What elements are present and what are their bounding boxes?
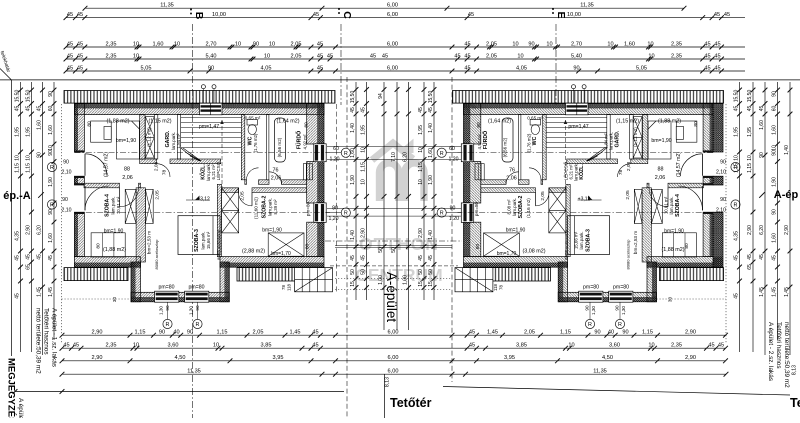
svg-text:10,00: 10,00 [212, 12, 226, 18]
right chain 1 [733, 82, 742, 352]
bottom wall left part [74, 257, 140, 263]
closet room4 [91, 233, 125, 257]
svg-text:10: 10 [213, 343, 219, 349]
gap dashed line right [451, 77, 453, 382]
svg-text:90: 90 [187, 330, 193, 336]
svg-text:A-ép: A-ép [774, 189, 799, 201]
svg-text:1,15: 1,15 [217, 330, 228, 336]
svg-text:A épület - 2.sz. lakás: A épület - 2.sz. lakás [767, 322, 774, 381]
svg-text:SZOBA-3: SZOBA-3 [194, 229, 200, 252]
svg-text:4,35: 4,35 [14, 231, 20, 241]
svg-text:10: 10 [174, 41, 180, 47]
svg-text:90: 90 [573, 65, 579, 71]
svg-text:50: 50 [360, 269, 366, 275]
svg-text:1,60: 1,60 [759, 120, 765, 130]
svg-text:45: 45 [747, 254, 753, 260]
svg-text:45: 45 [313, 12, 319, 18]
svg-text:R: R [196, 322, 200, 328]
svg-text:lam.park.: lam.park. [574, 163, 579, 181]
svg-text:45: 45 [360, 255, 366, 261]
svg-text:80: 80 [476, 122, 482, 128]
door to room 4 [74, 183, 84, 185]
svg-text:11,35: 11,35 [160, 3, 174, 9]
svg-text:45: 45 [468, 12, 474, 18]
svg-text:2,35: 2,35 [106, 53, 117, 59]
svg-text:1,20: 1,20 [449, 216, 459, 222]
svg-text:45: 45 [718, 343, 724, 349]
svg-text:1,95: 1,95 [747, 127, 753, 137]
svg-text:80/80 acéloszlop: 80/80 acéloszlop [564, 229, 569, 260]
svg-text:2,90: 2,90 [360, 228, 366, 238]
partition shaft [154, 114, 158, 159]
svg-text:2,90: 2,90 [747, 225, 753, 235]
svg-text:(1,88 m2): (1,88 m2) [658, 118, 681, 124]
svg-text:6,00: 6,00 [387, 12, 398, 18]
svg-text:4,05: 4,05 [261, 65, 272, 71]
svg-text:SZOBA-2: SZOBA-2 [518, 196, 524, 219]
svg-text:4,50: 4,50 [175, 355, 186, 361]
svg-text:1,15: 1,15 [135, 330, 146, 336]
svg-text:2,05: 2,05 [625, 190, 631, 200]
left chain 2 [25, 82, 34, 352]
svg-text:bm=1,90: bm=1,90 [651, 138, 671, 144]
svg-text:1,90: 1,90 [48, 177, 54, 187]
svg-text:15,66 m²: 15,66 m² [574, 231, 579, 249]
roof window top (60x60) [200, 103, 223, 115]
svg-text:R: R [50, 165, 54, 171]
left exterior wall [74, 104, 78, 152]
svg-text:WC: WC [532, 136, 538, 145]
svg-text:118: 118 [287, 283, 292, 291]
svg-text:A épület - 1.sz. lakás: A épület - 1.sz. lakás [51, 308, 58, 367]
vent circles [201, 85, 205, 89]
svg-text:45: 45 [382, 53, 388, 59]
svg-text:45: 45 [418, 107, 424, 113]
svg-text:1,15: 1,15 [747, 163, 753, 173]
svg-text:1,40: 1,40 [350, 230, 356, 240]
svg-text:1,15: 1,15 [642, 330, 653, 336]
closet room2 X [222, 188, 239, 233]
svg-text:1,30: 1,30 [189, 306, 194, 315]
svg-text:45: 45 [469, 330, 475, 336]
mid chain 6 [418, 82, 427, 300]
R markers bay windows right unit [589, 303, 591, 320]
top exterior wall [74, 104, 200, 109]
svg-text:1,40: 1,40 [428, 230, 434, 240]
svg-text:1,60: 1,60 [771, 233, 777, 243]
svg-text:80: 80 [86, 121, 92, 127]
svg-text:10: 10 [360, 147, 366, 153]
svg-text:50: 50 [378, 247, 384, 253]
svg-text:90: 90 [720, 197, 726, 203]
svg-text:1,90: 1,90 [350, 175, 356, 185]
eave strip bottom-left [64, 268, 128, 281]
svg-text:R: R [734, 203, 738, 209]
svg-text:1,45: 1,45 [48, 287, 54, 297]
svg-text:pm=80: pm=80 [306, 201, 311, 216]
svg-text:2,10: 2,10 [61, 208, 71, 214]
mid chain 1 [350, 82, 359, 300]
svg-text:2,35: 2,35 [671, 41, 682, 47]
svg-text:2,90: 2,90 [25, 225, 31, 235]
dimension row bottom 1 [60, 330, 728, 338]
svg-text:1,60: 1,60 [350, 148, 356, 158]
svg-text:1,90: 1,90 [771, 177, 777, 187]
svg-text:bm=1,70: bm=1,70 [497, 251, 517, 257]
svg-text:A épület 1.sz: A épület 1.sz [17, 398, 24, 418]
svg-text:45: 45 [14, 293, 20, 299]
svg-text:11,35: 11,35 [187, 369, 201, 375]
svg-text:10: 10 [235, 41, 241, 47]
svg-text:1,45: 1,45 [36, 287, 42, 297]
svg-text:3,85: 3,85 [261, 343, 272, 349]
svg-text:2,90: 2,90 [92, 355, 103, 361]
svg-text:2,05: 2,05 [486, 53, 497, 59]
svg-text:45: 45 [704, 41, 710, 47]
svg-text:45: 45 [63, 343, 69, 349]
svg-text:1,45: 1,45 [771, 287, 777, 297]
svg-text:nettó területe:50,39 m2: nettó területe:50,39 m2 [783, 322, 790, 388]
mid chain 7 [428, 82, 437, 300]
dimension row top 3 [64, 41, 745, 49]
svg-text:10: 10 [48, 145, 54, 151]
svg-text:45: 45 [714, 12, 720, 18]
svg-text:10: 10 [25, 155, 31, 161]
svg-text:8,13: 8,13 [385, 377, 391, 387]
mid chain 4 [391, 82, 400, 330]
svg-text:pm=80: pm=80 [188, 284, 204, 290]
svg-text:45: 45 [77, 53, 83, 59]
bay window 1 [155, 291, 179, 302]
svg-text:90: 90 [771, 91, 777, 97]
svg-text:4,50: 4,50 [602, 355, 613, 361]
svg-text:45: 45 [733, 293, 739, 299]
svg-text:(1,64 m2): (1,64 m2) [488, 118, 511, 124]
svg-text:6,20: 6,20 [402, 152, 408, 162]
svg-text:10: 10 [14, 155, 20, 161]
svg-text:R: R [166, 322, 170, 328]
svg-text:15: 15 [428, 281, 434, 287]
svg-text:5,40: 5,40 [206, 53, 217, 59]
svg-text:50: 50 [418, 269, 424, 275]
svg-text:90: 90 [48, 150, 54, 156]
svg-text:4,92 m²: 4,92 m² [477, 134, 482, 149]
svg-text:(6,56 m2): (6,56 m2) [503, 137, 508, 157]
svg-text:45: 45 [36, 106, 42, 112]
svg-text:3,95: 3,95 [273, 355, 284, 361]
svg-text:90: 90 [48, 91, 54, 97]
svg-text:1,20: 1,20 [328, 216, 338, 222]
right chain 4 [771, 82, 780, 340]
svg-text:R: R [440, 211, 444, 217]
svg-text:45: 45 [418, 255, 424, 261]
svg-text:15,66 m²: 15,66 m² [206, 231, 211, 249]
section line C-C [340, 24, 342, 105]
svg-text:45: 45 [312, 343, 318, 349]
svg-text:5,40: 5,40 [571, 53, 582, 59]
svg-text:80: 80 [305, 244, 311, 250]
left chain 1 [14, 82, 23, 352]
svg-text:90: 90 [622, 330, 628, 336]
svg-text:11,35: 11,35 [593, 369, 607, 375]
svg-text:1,45: 1,45 [784, 287, 790, 297]
svg-text:10: 10 [747, 155, 753, 161]
svg-text:80/80 acéloszlop: 80/80 acéloszlop [626, 239, 631, 270]
svg-text:pm=1,47: pm=1,47 [568, 124, 588, 130]
svg-text:45: 45 [724, 12, 730, 18]
svg-text:1,45: 1,45 [290, 330, 301, 336]
svg-text:1,30: 1,30 [621, 306, 626, 315]
dotted offset line left [61, 104, 63, 344]
svg-text:1,60: 1,60 [428, 148, 434, 158]
svg-text:10: 10 [517, 53, 523, 59]
svg-text:10: 10 [133, 41, 139, 47]
level mark [195, 196, 200, 201]
svg-text:1,45: 1,45 [487, 330, 498, 336]
svg-text:45: 45 [464, 65, 470, 71]
svg-text:2,06: 2,06 [122, 175, 133, 181]
svg-text:bm=1,90: bm=1,90 [664, 229, 684, 235]
svg-text:45: 45 [733, 106, 739, 112]
svg-text:3,60: 3,60 [168, 343, 179, 349]
svg-text:45: 45 [428, 255, 434, 261]
svg-text:1,15: 1,15 [560, 330, 571, 336]
svg-text:A-épület: A-épület [384, 272, 399, 323]
svg-text:KÖZL.: KÖZL. [578, 164, 585, 180]
svg-text:2,05: 2,05 [240, 191, 246, 201]
svg-text:80: 80 [693, 121, 699, 127]
svg-text:78: 78 [281, 285, 286, 290]
shaft X [145, 117, 154, 158]
svg-text:45: 45 [759, 254, 765, 260]
svg-text:2,05: 2,05 [524, 330, 535, 336]
svg-text:78: 78 [161, 170, 167, 176]
bay bottom wall [131, 292, 156, 297]
svg-text:2,90: 2,90 [92, 330, 103, 336]
svg-text:45: 45 [25, 106, 31, 112]
svg-text:1,95: 1,95 [25, 127, 31, 137]
svg-text:R: R [344, 211, 348, 217]
svg-text:6,20: 6,20 [36, 225, 42, 235]
svg-text:bm=1,90: bm=1,90 [104, 229, 124, 235]
svg-text:10: 10 [269, 41, 275, 47]
dotted lines at bay [62, 298, 132, 300]
svg-text:0,65 m²: 0,65 m² [245, 115, 261, 120]
svg-text:15,50: 15,50 [350, 91, 356, 104]
svg-text:1,30: 1,30 [591, 306, 596, 315]
svg-text:(1,76 m2): (1,76 m2) [253, 133, 258, 152]
svg-text:3,95: 3,95 [504, 355, 515, 361]
svg-text:90: 90 [208, 65, 214, 71]
svg-text:(1,16 m2): (1,16 m2) [526, 198, 531, 218]
axis lines [74, 152, 330, 154]
opening markers R left wall of right unit [446, 152, 461, 154]
svg-text:2,35: 2,35 [671, 53, 682, 59]
svg-text:15: 15 [350, 281, 356, 287]
svg-text:2,05: 2,05 [253, 330, 264, 336]
mid chain 3 [378, 82, 387, 330]
svg-text:45: 45 [469, 343, 475, 349]
dimension row bottom 4 [60, 369, 729, 377]
svg-text:5,05: 5,05 [636, 65, 647, 71]
bay window 2 [185, 291, 209, 302]
svg-text:10: 10 [418, 147, 424, 153]
svg-text:(1,76 m2): (1,76 m2) [527, 133, 532, 152]
svg-text:7,10: 7,10 [391, 152, 397, 162]
svg-text:15: 15 [418, 281, 424, 287]
svg-text:6,20: 6,20 [759, 225, 765, 235]
svg-text:2,05: 2,05 [291, 53, 302, 59]
svg-text:B: B [193, 12, 205, 20]
svg-text:10: 10 [733, 155, 739, 161]
svg-text:50: 50 [350, 269, 356, 275]
svg-text:2,05: 2,05 [540, 191, 546, 201]
svg-text:E: E [555, 11, 567, 18]
svg-text:88: 88 [124, 167, 130, 173]
svg-text:(1,64 m2): (1,64 m2) [276, 118, 299, 124]
middle horizontal guide lines [327, 146, 461, 148]
svg-text:6,00: 6,00 [388, 355, 399, 361]
svg-text:1,95: 1,95 [733, 127, 739, 137]
toilet [247, 120, 257, 126]
svg-text:6,21 m²: 6,21 m² [569, 164, 574, 179]
svg-text:lam.park.: lam.park. [512, 198, 517, 216]
svg-text:(1,15 m2): (1,15 m2) [616, 118, 639, 124]
svg-text:2,35: 2,35 [671, 343, 682, 349]
svg-text:bm=1,70: bm=1,70 [271, 251, 291, 257]
svg-text:2,08: 2,08 [153, 162, 159, 172]
svg-text:80/80 acéloszlop: 80/80 acéloszlop [154, 239, 159, 270]
property line telekhatar [0, 69, 12, 81]
svg-text:6,00: 6,00 [388, 330, 399, 336]
partition room4/room3 [136, 188, 145, 262]
partition corridor/room2 [222, 188, 239, 193]
dimension row top 2 [64, 12, 745, 20]
svg-text:50: 50 [428, 269, 434, 275]
svg-text:10: 10 [418, 179, 424, 185]
right unit gable wall extra band [713, 104, 723, 152]
svg-text:ép.-A: ép.-A [3, 190, 31, 202]
svg-text:2,06: 2,06 [506, 176, 517, 182]
svg-text:lam.park.: lam.park. [201, 231, 206, 249]
svg-text:45: 45 [327, 53, 333, 59]
svg-text:FÜRDŐ: FÜRDŐ [482, 131, 489, 149]
svg-text:45: 45 [77, 65, 83, 71]
svg-text:90: 90 [450, 206, 456, 212]
svg-text:MEGJEGYZÉS:: MEGJEGYZÉS: [6, 358, 17, 418]
svg-text:pm=1,47: pm=1,47 [199, 124, 219, 130]
watermark Otthon Centrum logo [372, 143, 424, 201]
svg-text:45: 45 [747, 106, 753, 112]
svg-text:10: 10 [360, 179, 366, 185]
cabinet entry room [91, 121, 112, 142]
svg-text:40: 40 [173, 330, 179, 336]
svg-text:1,40: 1,40 [784, 145, 790, 155]
svg-text:88: 88 [658, 167, 664, 173]
dimension row top 4 [64, 53, 745, 61]
wardrobe entry room [117, 121, 140, 159]
svg-text:90: 90 [771, 150, 777, 156]
svg-text:76: 76 [273, 168, 279, 174]
svg-text:1,45: 1,45 [759, 287, 765, 297]
svg-text:1,60: 1,60 [771, 125, 777, 135]
entry door left wall [74, 150, 84, 152]
svg-text:90: 90 [159, 330, 165, 336]
svg-text:Tetőtéri hasznos: Tetőtéri hasznos [775, 322, 782, 369]
svg-text:45: 45 [317, 53, 323, 59]
svg-text:45: 45 [77, 41, 83, 47]
section line E-E [555, 24, 557, 105]
svg-text:C: C [341, 11, 353, 19]
svg-text:1,95: 1,95 [14, 127, 20, 137]
svg-text:45: 45 [704, 53, 710, 59]
svg-text:2,10: 2,10 [716, 208, 726, 214]
svg-text:Tetőtér: Tetőtér [790, 396, 800, 410]
svg-text:40: 40 [608, 330, 614, 336]
svg-text:1,00: 1,00 [402, 275, 408, 285]
svg-text:1,15: 1,15 [418, 162, 424, 172]
svg-text:94: 94 [378, 93, 384, 99]
partition room3/room2 [217, 184, 221, 256]
building A geometry (left unit) [64, 85, 335, 303]
svg-text:1,60: 1,60 [624, 41, 635, 47]
right chain 5 [784, 82, 793, 355]
room labels [86, 115, 699, 315]
svg-text:45: 45 [73, 343, 79, 349]
svg-text:SZOBA-3: SZOBA-3 [586, 229, 592, 252]
svg-text:10,81 m²: 10,81 m² [664, 196, 669, 214]
svg-text:R: R [618, 322, 622, 328]
svg-text:45: 45 [714, 53, 720, 59]
svg-text:R: R [588, 322, 592, 328]
svg-text:(11,60 m2): (11,60 m2) [254, 197, 259, 219]
svg-text:1,15: 1,15 [733, 163, 739, 173]
svg-text:6,00: 6,00 [387, 65, 398, 71]
bay right wall [220, 262, 224, 302]
svg-text:90: 90 [63, 160, 69, 166]
svg-text:90: 90 [720, 160, 726, 166]
bathtub [275, 118, 286, 162]
svg-text:GARD.: GARD. [615, 130, 621, 147]
svg-text:2,10: 2,10 [61, 170, 71, 176]
svg-text:45: 45 [714, 65, 720, 71]
svg-text:80: 80 [475, 244, 481, 250]
svg-text:lam.park.: lam.park. [669, 196, 674, 214]
svg-text:10: 10 [133, 343, 139, 349]
svg-text:(1,12 m2): (1,12 m2) [147, 127, 152, 147]
svg-text:1,90: 1,90 [428, 175, 434, 185]
svg-text:nettó területe:50,39 m2: nettó területe:50,39 m2 [35, 308, 42, 374]
svg-text:2,90: 2,90 [784, 225, 790, 235]
svg-text:10: 10 [546, 41, 552, 47]
svg-text:1,84 m²: 1,84 m² [176, 133, 181, 148]
right gable wall [307, 104, 318, 144]
svg-text:45: 45 [25, 254, 31, 260]
dimension row top 5 [64, 65, 745, 73]
svg-text:45: 45 [67, 41, 73, 47]
svg-text:LÉPCSŐ: LÉPCSŐ [215, 161, 221, 180]
svg-text:4,92 m²: 4,92 m² [303, 134, 308, 149]
svg-text:pm=80: pm=80 [158, 284, 174, 290]
svg-text:80: 80 [684, 243, 690, 249]
svg-text:6,00: 6,00 [387, 3, 398, 9]
svg-text:(14,57 m2): (14,57 m2) [104, 152, 110, 177]
svg-text:10: 10 [133, 53, 139, 59]
svg-text:45: 45 [350, 255, 356, 261]
svg-text:45: 45 [14, 106, 20, 112]
svg-text:lam.park.: lam.park. [579, 231, 584, 249]
mid chain 2 [360, 82, 369, 300]
